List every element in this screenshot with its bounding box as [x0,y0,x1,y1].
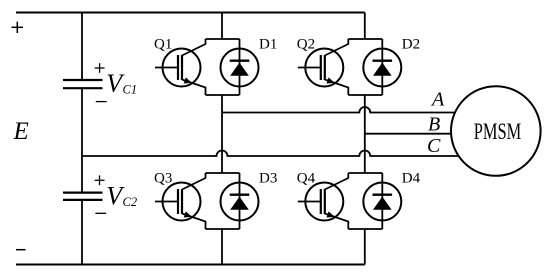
wire Q2/D2 emitter rail (bottom horizontal) [348,94,382,96]
wire top DC bus (+) [16,12,365,14]
capacitor C2 (VC2) [63,193,103,200]
svg-text:Q3: Q3 [154,171,172,187]
label - (VC2 polarity) [95,212,106,214]
label - (source E negative terminal) [16,249,26,251]
wire capacitor rail middle segment (neutral point) [81,89,83,191]
wire phase B (leg2 midpoint to motor) [365,133,452,135]
svg-text:C: C [427,135,441,157]
diode D4 (freewheeling) [363,173,401,229]
wire leg 1 midpoint (phase A node) [221,95,223,173]
wire leg 2 midpoint (phase B node) [364,95,366,173]
svg-text:PMSM: PMSM [474,119,522,144]
capacitor C1 (VC1) [63,80,103,88]
svg-text:Q4: Q4 [297,171,316,187]
svg-text:D4: D4 [402,171,421,187]
wire phase C (capacitor neutral point to motor, hops over leg 1 and leg 2) [82,151,459,156]
svg-text:C2: C2 [123,195,138,209]
diode D2 (freewheeling) [363,39,401,95]
label - (VC1 polarity) [96,101,107,103]
transistor Q1 (IGBT) [155,39,206,95]
label + (VC1 polarity) [95,63,105,73]
transistor Q2 (IGBT) [298,39,349,95]
svg-text:Q2: Q2 [297,37,315,53]
wire capacitor rail lower segment [81,201,83,265]
wire leg 1 bottom stub (Q3 to bus) [221,229,223,265]
wire Q1/D1 emitter rail (bottom horizontal) [206,94,240,96]
svg-text:D1: D1 [259,37,277,53]
diode D3 (freewheeling) [221,173,259,229]
wire phase A (leg1 midpoint to motor, hops over leg 2) [222,107,456,113]
wire Q2/D2 collector rail (top horizontal) [348,38,382,40]
svg-text:Q1: Q1 [154,37,172,53]
label + (VC2 polarity) [95,175,105,185]
svg-text:D3: D3 [259,171,277,187]
svg-text:A: A [430,89,445,111]
wire Q3/D3 collector rail (top horizontal) [206,172,240,174]
wire Q4/D4 collector rail (top horizontal) [348,172,382,174]
svg-text:D2: D2 [402,37,420,53]
wire Q4/D4 emitter rail (bottom horizontal) [348,228,382,230]
wire Q3/D3 emitter rail (bottom horizontal) [206,228,240,230]
transistor Q3 (IGBT) [155,173,206,229]
wire leg 2 top stub (bus to Q2) [364,13,366,40]
wire leg 1 top stub (bus to Q1) [221,13,223,40]
svg-text:B: B [428,114,440,136]
motor M1 (PMSM) [451,86,541,176]
label VC1 [106,69,137,98]
svg-text:C1: C1 [123,83,138,97]
wire bottom DC bus (-) [16,264,365,266]
diode D1 (freewheeling) [221,39,259,95]
wire leg 2 bottom stub (Q4 to bus) [364,229,366,265]
wire Q1/D1 collector rail (top horizontal) [206,38,240,40]
label + (source E positive terminal) [12,22,24,33]
label VC2 [106,182,137,211]
transistor Q4 (IGBT) [298,173,349,229]
svg-text:E: E [13,118,29,145]
wire capacitor rail upper segment [81,13,83,80]
